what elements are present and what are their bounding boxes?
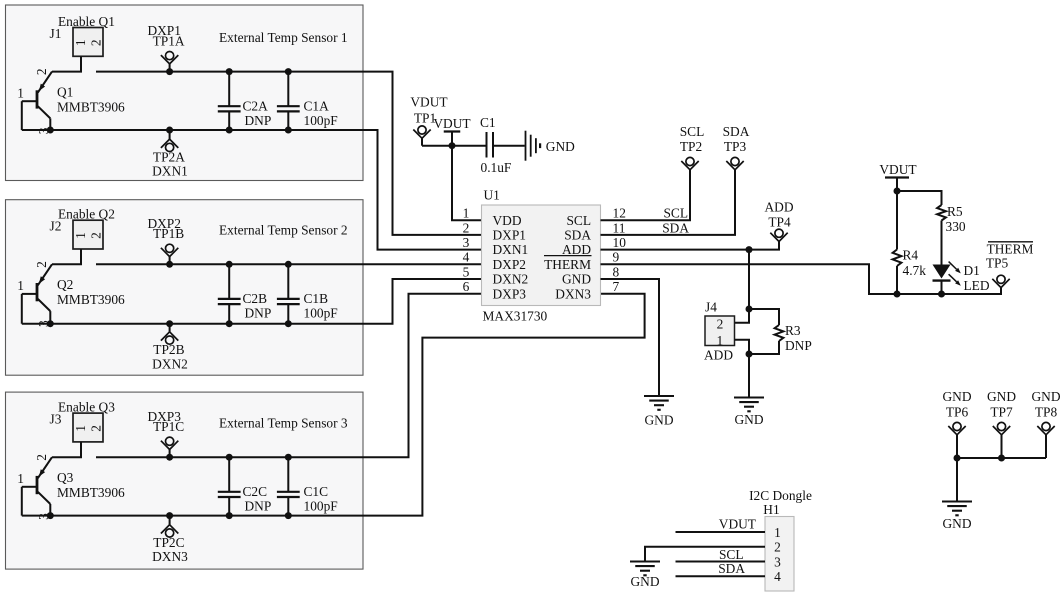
wire R3 bottom — [749, 341, 779, 354]
svg-text:GND: GND — [1031, 389, 1060, 404]
svg-text:1: 1 — [73, 232, 88, 239]
svg-text:I2C Dongle: I2C Dongle — [749, 488, 812, 503]
svg-text:1: 1 — [463, 206, 470, 221]
connector J1 — [73, 28, 103, 57]
resistor R4 — [896, 191, 898, 250]
svg-text:11: 11 — [613, 220, 626, 235]
svg-text:1: 1 — [17, 86, 24, 101]
svg-text:DXN3: DXN3 — [555, 286, 591, 301]
svg-text:R4: R4 — [903, 248, 919, 263]
svg-text:SDA: SDA — [662, 220, 689, 235]
svg-text:SDA: SDA — [718, 561, 745, 576]
svg-text:DXN1: DXN1 — [152, 164, 188, 179]
svg-text:8: 8 — [613, 264, 620, 279]
svg-text:GND: GND — [942, 389, 971, 404]
block External Temp Sensor 2 outline — [6, 200, 364, 376]
node VDUT junction — [449, 142, 456, 149]
wire VDUT to R5 — [897, 191, 942, 205]
svg-text:TP4: TP4 — [768, 215, 791, 230]
svg-text:J4: J4 — [705, 300, 717, 315]
svg-text:GND: GND — [562, 272, 591, 287]
svg-text:TP1A: TP1A — [153, 33, 185, 48]
svg-text:3: 3 — [463, 235, 470, 250]
svg-text:100pF: 100pF — [304, 306, 338, 321]
svg-text:SDA: SDA — [723, 124, 750, 139]
svg-text:VDUT: VDUT — [879, 162, 916, 177]
svg-text:VDUT: VDUT — [719, 517, 756, 532]
svg-text:DXN2: DXN2 — [493, 272, 529, 287]
svg-text:GND: GND — [942, 516, 971, 531]
wire DXN3 net block3 to U1 pin7 — [22, 294, 645, 516]
svg-text:THERM: THERM — [987, 242, 1034, 257]
svg-text:GND: GND — [987, 389, 1016, 404]
svg-text:4: 4 — [774, 569, 781, 584]
svg-text:9: 9 — [613, 250, 620, 265]
wire C1 to ground — [494, 145, 525, 147]
test point TP2 SCL — [686, 157, 694, 165]
node ADD junction — [746, 246, 753, 253]
svg-text:GND: GND — [630, 574, 659, 589]
wire SCL to H1 pin3 — [676, 561, 766, 563]
svg-text:DXP2: DXP2 — [493, 257, 526, 272]
power symbol VDUT top — [444, 130, 461, 132]
svg-text:VDUT: VDUT — [410, 95, 447, 110]
wire J3 pin1 to Q3 emitter — [52, 442, 81, 457]
svg-text:C2A: C2A — [243, 98, 269, 113]
svg-text:LED: LED — [964, 278, 990, 293]
ground at H1 — [630, 560, 660, 562]
block External Temp Sensor 3 outline — [6, 392, 364, 569]
svg-text:12: 12 — [613, 206, 626, 221]
svg-text:SCL: SCL — [663, 205, 688, 220]
svg-text:2: 2 — [717, 317, 724, 332]
capacitor C1A — [287, 72, 289, 107]
wire DXP1 net block1 to U1 pin2 — [96, 72, 482, 235]
svg-text:3: 3 — [774, 554, 781, 569]
svg-text:External Temp Sensor 1: External Temp Sensor 1 — [219, 30, 348, 45]
node R4-THERM junction — [894, 291, 901, 298]
test point TP5 THERM — [997, 275, 1005, 283]
svg-text:MMBT3906: MMBT3906 — [57, 99, 125, 114]
svg-text:5: 5 — [463, 264, 470, 279]
node D1-THERM junction — [938, 291, 945, 298]
wire DXP3 net block3 to U1 pin6 — [96, 294, 482, 458]
svg-text:10: 10 — [613, 235, 627, 250]
svg-text:2: 2 — [88, 39, 103, 46]
svg-text:100pF: 100pF — [304, 113, 338, 128]
svg-text:2: 2 — [774, 540, 781, 555]
svg-text:2: 2 — [463, 220, 470, 235]
svg-text:R5: R5 — [947, 204, 963, 219]
capacitor C1C — [287, 457, 289, 492]
svg-text:2: 2 — [88, 232, 103, 239]
resistor R5 — [937, 205, 946, 221]
test point TP4 ADD — [775, 229, 783, 237]
wire ADD down to J4/R3 — [748, 250, 750, 309]
svg-text:TP2A: TP2A — [153, 149, 185, 164]
svg-text:R3: R3 — [785, 323, 801, 338]
wire THERM U1 pin9 to LED node — [601, 264, 1002, 294]
svg-text:Q1: Q1 — [57, 84, 73, 99]
svg-text:TP3: TP3 — [724, 139, 747, 154]
svg-text:J2: J2 — [50, 219, 62, 234]
connector J4 — [705, 316, 735, 346]
svg-text:TP2C: TP2C — [153, 535, 184, 550]
node TP6 junction — [954, 455, 961, 462]
svg-text:GND: GND — [644, 413, 673, 428]
capacitor C2B — [228, 264, 230, 299]
test point TP3 SDA — [731, 157, 739, 165]
svg-text:DNP: DNP — [245, 113, 272, 128]
svg-text:C1B: C1B — [304, 291, 329, 306]
svg-text:U1: U1 — [484, 188, 500, 203]
svg-text:TP1C: TP1C — [153, 419, 184, 434]
svg-text:1: 1 — [774, 525, 781, 540]
overline THERM pin name — [544, 255, 592, 257]
svg-text:DNP: DNP — [785, 338, 812, 353]
svg-text:ADD: ADD — [764, 200, 793, 215]
connector J3 — [73, 413, 103, 442]
wire DXN1 net block1 to U1 pin3 — [22, 130, 482, 250]
svg-text:DXN3: DXN3 — [152, 549, 188, 564]
wire TP1 to VDUT node — [422, 145, 452, 147]
svg-text:ADD: ADD — [704, 348, 733, 363]
svg-text:MMBT3906: MMBT3906 — [57, 292, 125, 307]
svg-text:TP1B: TP1B — [153, 226, 184, 241]
test point TP2A DXN1 — [166, 143, 174, 151]
svg-text:2: 2 — [34, 68, 49, 75]
wire to R3 top — [749, 309, 779, 325]
svg-text:Q2: Q2 — [57, 277, 73, 292]
svg-text:DXN1: DXN1 — [493, 242, 529, 257]
capacitor C2A — [228, 72, 230, 107]
svg-text:External Temp Sensor 2: External Temp Sensor 2 — [219, 223, 348, 238]
svg-text:TP2: TP2 — [680, 139, 702, 154]
svg-text:MAX31730: MAX31730 — [483, 308, 548, 323]
wire SCL U1 pin12 to TP2 — [601, 170, 691, 220]
resistor R3 — [775, 325, 784, 341]
transistor Q3 MMBT3906 — [22, 457, 52, 515]
op-amp U1 MAX31730 body — [482, 205, 601, 306]
junction dots block 1 — [47, 68, 292, 133]
svg-text:1: 1 — [17, 278, 24, 293]
node ADD-R3 junction — [746, 306, 753, 313]
junction dots block 2 — [47, 261, 292, 327]
svg-text:TP6: TP6 — [946, 405, 969, 420]
node TP7 junction — [998, 455, 1005, 462]
svg-text:C2C: C2C — [243, 484, 268, 499]
svg-text:6: 6 — [463, 279, 470, 294]
wire VDUT to U1 pin1 VDD — [452, 146, 482, 221]
wire TP6 rail to ground — [956, 458, 958, 502]
test point TP1C DXP3 — [166, 437, 174, 445]
svg-text:DNP: DNP — [245, 306, 272, 321]
test point TP7 GND — [997, 422, 1005, 430]
LED light arrows D1 — [949, 262, 957, 270]
svg-text:D1: D1 — [964, 263, 980, 278]
capacitor C2C — [228, 457, 230, 492]
wire GND test point rail — [957, 457, 1046, 459]
transistor Q1 MMBT3906 — [22, 72, 52, 130]
test point TP2C DXN3 — [166, 529, 174, 537]
wire SDA to H1 pin4 — [676, 575, 766, 577]
svg-text:SDA: SDA — [564, 228, 591, 243]
test point TP2B DXN2 — [166, 336, 174, 344]
connector J2 — [73, 220, 103, 249]
connector H1 — [765, 517, 794, 592]
test point TP1A DXP1 — [166, 52, 174, 60]
svg-text:1: 1 — [73, 425, 88, 432]
svg-text:C1: C1 — [480, 115, 496, 130]
transistor Q2 MMBT3906 — [22, 264, 52, 323]
svg-text:1: 1 — [73, 39, 88, 46]
wire J1 pin1 to Q1 emitter — [52, 56, 81, 71]
test point TP8 GND — [1042, 422, 1050, 430]
svg-text:2: 2 — [34, 261, 49, 268]
svg-text:SCL: SCL — [680, 124, 705, 139]
svg-text:DXN2: DXN2 — [152, 356, 188, 371]
svg-text:DXP1: DXP1 — [493, 228, 526, 243]
svg-text:J3: J3 — [50, 412, 62, 427]
svg-text:7: 7 — [613, 279, 620, 294]
svg-text:Q3: Q3 — [57, 470, 74, 485]
svg-text:1: 1 — [17, 471, 24, 486]
svg-text:4.7k: 4.7k — [903, 263, 927, 278]
wire SDA U1 pin11 to TP3 — [601, 170, 736, 235]
junction dots block 3 — [47, 454, 292, 519]
wire ADD to J4 pin2 — [735, 309, 750, 323]
svg-text:TP2B: TP2B — [153, 342, 184, 357]
test point TP1B DXP2 — [166, 244, 174, 252]
svg-text:2: 2 — [88, 425, 103, 432]
wire VDUT to H1 pin1 — [676, 531, 766, 533]
svg-text:H1: H1 — [763, 502, 779, 517]
test point TP6 GND — [953, 422, 961, 430]
svg-text:TP7: TP7 — [990, 405, 1013, 420]
wire down to ground J4 — [748, 354, 750, 398]
wire ADD U1 pin10 to TP4 — [601, 242, 780, 250]
svg-text:DNP: DNP — [245, 498, 272, 513]
block External Temp Sensor 1 outline — [6, 5, 364, 181]
svg-text:MMBT3906: MMBT3906 — [57, 485, 125, 500]
wire DXP2 net block2 to U1 pin4 — [96, 263, 482, 265]
ground under U1 pin8 — [644, 395, 674, 397]
svg-text:VDUT: VDUT — [433, 116, 470, 131]
svg-text:TP8: TP8 — [1035, 405, 1058, 420]
svg-text:4: 4 — [463, 250, 470, 265]
node VDUT-R4-R5 junction — [894, 188, 901, 195]
ground under J4 — [734, 396, 764, 398]
svg-text:THERM: THERM — [544, 257, 591, 272]
svg-text:C1A: C1A — [304, 98, 330, 113]
svg-text:330: 330 — [946, 219, 966, 234]
wire J2 pin1 to Q2 emitter — [52, 249, 81, 264]
diode D1 LED — [933, 265, 951, 279]
ground tick at C1 — [525, 131, 527, 161]
wire J4 pin1 to ground node — [735, 340, 750, 354]
svg-text:External Temp Sensor 3: External Temp Sensor 3 — [219, 416, 348, 431]
svg-text:TP5: TP5 — [986, 255, 1009, 270]
svg-text:GND: GND — [734, 412, 763, 427]
test point TP1 VDUT — [418, 126, 426, 134]
ground under TP6 — [942, 500, 972, 502]
wire U1 pin8 GND to ground — [601, 279, 660, 396]
svg-text:J1: J1 — [50, 26, 62, 41]
svg-text:DXP3: DXP3 — [493, 286, 527, 301]
wire R4 bottom to THERM rail — [896, 266, 898, 294]
svg-text:100pF: 100pF — [304, 498, 338, 513]
capacitor C1B — [287, 264, 289, 299]
svg-text:SCL: SCL — [566, 213, 591, 228]
svg-text:C2B: C2B — [243, 291, 268, 306]
node J4 ground junction — [746, 351, 753, 358]
wire DXN2 net block2 to U1 pin5 — [22, 279, 482, 324]
svg-text:SCL: SCL — [719, 547, 744, 562]
svg-text:GND: GND — [546, 139, 575, 154]
wire VDUT node to C1 — [452, 145, 486, 147]
svg-text:C1C: C1C — [304, 484, 329, 499]
wire R5 to D1 — [941, 221, 943, 265]
capacitor C1 — [486, 132, 488, 158]
wire H1 pin2 to ground — [645, 547, 765, 562]
svg-text:2: 2 — [34, 454, 49, 461]
svg-text:1: 1 — [716, 333, 723, 348]
svg-text:VDD: VDD — [493, 213, 522, 228]
svg-text:0.1uF: 0.1uF — [481, 160, 512, 175]
power symbol VDUT right — [885, 176, 909, 178]
